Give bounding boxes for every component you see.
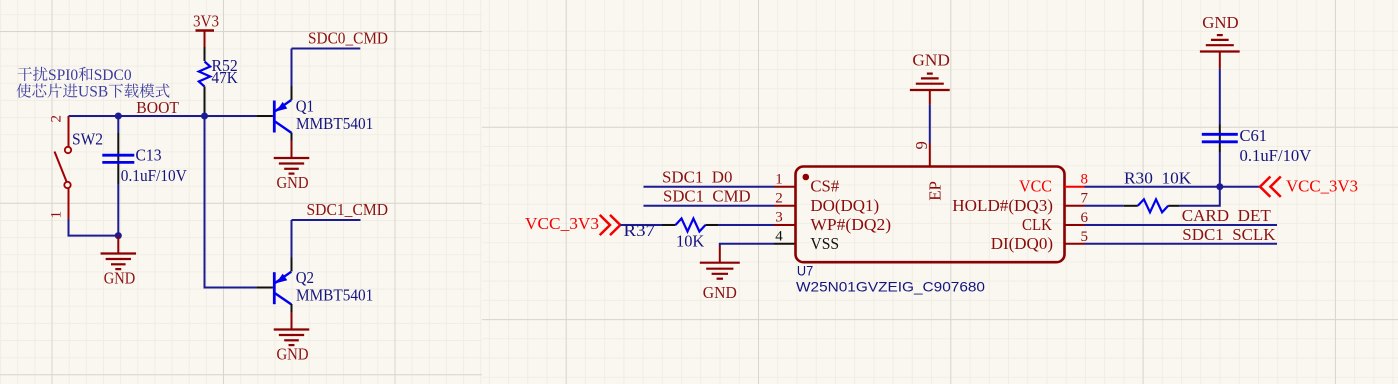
svg-text:4: 4 [775,229,783,245]
wire [1085,205,1124,207]
svg-text:C13: C13 [136,146,162,165]
svg-text:GND: GND [703,283,737,302]
svg-text:R37: R37 [624,221,656,240]
svg-text:0.1uF/10V: 0.1uF/10V [121,166,188,185]
svg-text:GND: GND [912,51,950,70]
svg-text:3V3: 3V3 [193,12,219,31]
svg-text:VSS: VSS [810,234,839,253]
power port VCC_3V3 (right) [1260,177,1358,197]
wire VSS [720,244,774,246]
svg-text:CARD DET: CARD DET [1182,206,1272,225]
switch SW2 [55,116,104,219]
svg-text:R30 10K: R30 10K [1124,169,1192,188]
svg-text:C61: C61 [1240,126,1268,145]
pin 9 of U7 [912,141,931,166]
pin 5 of U7 [1065,229,1088,245]
svg-text:SW2: SW2 [72,130,103,149]
svg-text:MMBT5401: MMBT5401 [296,114,373,133]
resistor R37 [624,219,719,251]
wire BOOT [69,115,257,117]
svg-text:47K: 47K [212,68,239,87]
wire SDC1_CMD [292,219,361,221]
transistor Q1 [274,86,373,141]
transistor Q2 [274,258,373,313]
ground GND (switch) [101,236,137,288]
svg-text:2: 2 [49,115,65,123]
svg-text:USB: USB [78,84,108,101]
wire [291,49,293,87]
pin 7 of U7 [1065,191,1089,207]
svg-text:GND: GND [277,344,309,363]
svg-text:SDC0: SDC0 [94,67,132,84]
wire [69,219,119,236]
svg-text:GND: GND [277,173,309,192]
svg-text:DO(DQ1): DO(DQ1) [810,196,879,215]
note text line 2 [17,83,170,100]
wire [718,224,774,226]
wire [204,47,206,61]
ground GND (EP) [910,51,950,105]
svg-text:HOLD#(DQ3): HOLD#(DQ3) [952,196,1053,215]
node junction BOOT-C13 [115,113,122,120]
power port VCC_3V3 (left) [525,214,620,235]
svg-text:10K: 10K [676,232,705,251]
svg-text:3: 3 [775,210,783,226]
svg-text:1: 1 [49,211,65,219]
capacitor C13 [102,116,187,236]
svg-text:VCC: VCC [1019,176,1052,195]
svg-text:SDC0_CMD: SDC0_CMD [308,29,388,48]
svg-text:GND: GND [1202,13,1238,32]
svg-text:MMBT5401: MMBT5401 [296,285,373,304]
pin 2 of U7 [774,191,796,207]
pin 3 of U7 [774,210,796,226]
pin 6 of U7 [1065,210,1089,226]
wire SDC1 SCLK [1085,243,1278,245]
svg-text:8: 8 [1080,172,1088,188]
svg-text:0.1uF/10V: 0.1uF/10V [1240,146,1312,165]
svg-text:5: 5 [1080,229,1088,245]
wire [1180,187,1220,206]
wire VCC_3V3 [1085,186,1261,188]
svg-text:SDC1 SCLK: SDC1 SCLK [1182,225,1276,244]
node junction VCC_3V3-C61 [1216,183,1223,190]
svg-text:Q1: Q1 [296,97,314,116]
wire [621,224,663,226]
node junction GND-C13 [115,232,122,239]
svg-text:SDC1 CMD: SDC1 CMD [663,186,751,205]
wire [291,220,293,258]
resistor R52 [199,56,239,87]
svg-text:U7: U7 [797,263,813,278]
pin 1 of U7 [774,171,796,187]
svg-text:WP#(DQ2): WP#(DQ2) [810,215,891,234]
svg-text:CLK: CLK [1022,215,1053,234]
svg-text:BOOT: BOOT [136,98,179,117]
svg-text:6: 6 [1080,210,1088,226]
wire [256,115,273,117]
svg-text:DI(DQ0): DI(DQ0) [991,234,1053,253]
wire SDC1 D0 [644,186,775,188]
power symbol 3V3 [193,12,219,48]
svg-text:EP: EP [925,181,944,201]
node junction BOOT-R52 [201,113,208,120]
svg-text:SDC1 D0: SDC1 D0 [662,168,732,187]
svg-text:VCC_3V3: VCC_3V3 [1286,177,1358,196]
svg-text:Q2: Q2 [296,268,314,287]
capacitor C61 [1202,68,1312,186]
note text line 1 [18,67,132,84]
wire [256,287,273,289]
ground GND (Q2) [274,312,310,363]
resistor R30 [1124,199,1180,212]
wire SDC0_CMD [292,48,361,50]
wire BOOT to Q2 base [205,116,257,288]
svg-text:7: 7 [1080,191,1088,207]
svg-text:2: 2 [775,191,783,207]
ground GND (C61) [1200,13,1240,69]
pin 4 of U7 [774,229,796,245]
wire [929,105,931,143]
svg-text:SDC1_CMD: SDC1_CMD [307,200,389,219]
svg-text:CS#: CS# [810,176,839,195]
svg-text:GND: GND [104,269,135,288]
svg-text:SPI0: SPI0 [48,67,78,84]
ground GND (VSS) [700,246,740,302]
ground GND (Q1) [274,141,310,192]
chip U7 body [796,167,1065,263]
svg-text:W25N01GVZEIG_C907680: W25N01GVZEIG_C907680 [796,279,985,295]
pin 1 dot of U7 [803,174,810,181]
svg-text:1: 1 [775,171,783,187]
svg-text:9: 9 [912,141,931,149]
wire [204,87,206,117]
svg-text:VCC_3V3: VCC_3V3 [525,214,599,233]
pin 8 of U7 [1065,172,1088,188]
wire SDC1 CMD [644,205,775,207]
wire CARD DET [1085,224,1278,226]
